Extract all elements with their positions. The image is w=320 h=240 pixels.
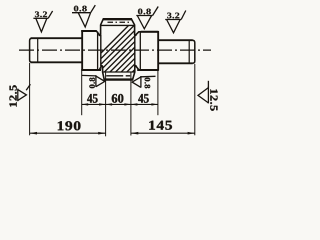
gear root line top xyxy=(101,24,135,26)
extension line tooth right xyxy=(130,73,132,136)
dimension line 45/60/45 xyxy=(82,103,158,105)
roughness symbol 0.8 top-left xyxy=(72,5,95,27)
extension line left end (190) xyxy=(29,63,31,135)
gear section hatching xyxy=(78,20,190,76)
gear pitch line bottom (dash-dot) xyxy=(106,75,132,77)
hub chamfer edge line right xyxy=(139,32,141,69)
hub left edge xyxy=(81,30,83,70)
roughness symbol 12.5 left (rotated) xyxy=(18,84,31,101)
gear rim left edge xyxy=(100,35,102,66)
gear root line bottom xyxy=(103,71,135,73)
dimension text 145 xyxy=(149,121,172,130)
dimension text 60 xyxy=(112,94,124,103)
gear tooth tip line top (thick) xyxy=(103,18,132,20)
right stub bottom line xyxy=(158,62,193,64)
arrows 45/60/45 xyxy=(82,103,89,105)
roughness symbol 0.8 bottom-right (rotated) xyxy=(132,76,155,88)
extension line right end xyxy=(194,64,196,135)
dimension text 45 right xyxy=(138,94,148,103)
hub chamfer edge line left xyxy=(97,32,99,70)
roughness symbol 3.2 top-right xyxy=(165,11,186,33)
extension line hub left (45) xyxy=(81,71,83,115)
hub top/bottom emphasized lines xyxy=(81,30,96,32)
hub right edge xyxy=(157,31,159,70)
dimension line 145 xyxy=(131,132,195,134)
roughness symbol 3.2 top-left xyxy=(33,11,52,32)
left stub chamfer line xyxy=(37,38,39,62)
gear tooth tip line bottom (thick) xyxy=(104,78,133,80)
extension line hub right xyxy=(157,71,159,115)
dimension line 190 xyxy=(30,132,106,134)
dimension text 45 left xyxy=(87,94,97,103)
right stub end face rounded xyxy=(193,40,195,63)
right stub top line xyxy=(158,39,193,41)
extension line tooth left (long) xyxy=(105,73,107,137)
dimension text 190 xyxy=(58,121,81,130)
left stub bottom line xyxy=(31,61,83,63)
gear pitch line top (dash-dot) xyxy=(108,21,130,23)
roughness symbol 0.8 top-right xyxy=(136,7,158,29)
gear rim right edge xyxy=(134,35,136,66)
roughness symbol 12.5 right (rotated) xyxy=(198,81,208,104)
left stub shaft end face rounded xyxy=(30,38,32,62)
gear profile outline xyxy=(82,19,158,79)
right stub chamfer line xyxy=(188,40,190,63)
left stub top line xyxy=(31,37,83,39)
roughness symbol 0.8 bottom-left (rotated) xyxy=(82,75,105,87)
centerline xyxy=(19,49,211,51)
